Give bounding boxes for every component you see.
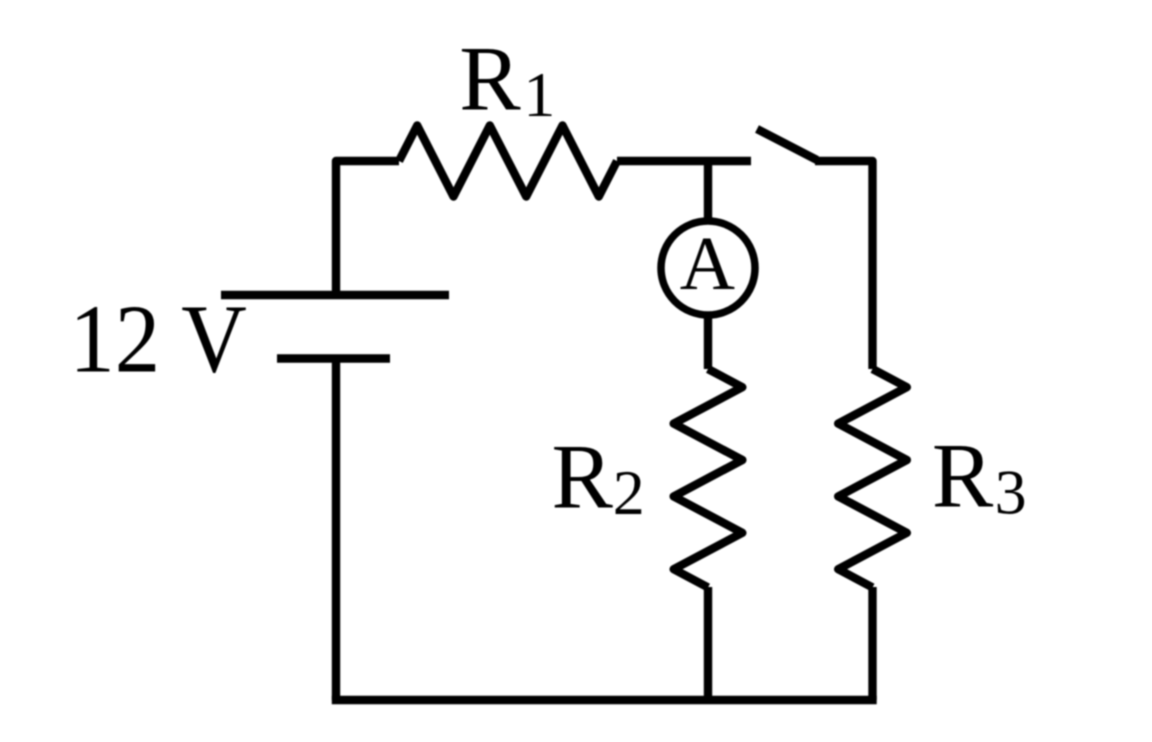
svg-text:3: 3 <box>995 456 1027 527</box>
ammeter U1 circle <box>661 221 755 315</box>
wire: battery negative lead <box>332 359 340 701</box>
svg-text:A: A <box>680 221 735 306</box>
wire: R2 to bottom wire <box>704 587 712 700</box>
resistor R3 <box>838 369 907 587</box>
svg-text:12 V: 12 V <box>69 286 246 394</box>
battery B1 short plate (negative) <box>277 354 390 362</box>
wire: R3 to bottom wire <box>868 587 876 700</box>
svg-text:R: R <box>552 426 614 528</box>
resistor R1 <box>399 126 617 197</box>
switch S1 blade (open) <box>757 129 817 160</box>
svg-text:R: R <box>459 27 521 129</box>
bottom wire (ground return) <box>336 696 873 704</box>
svg-text:2: 2 <box>613 457 645 528</box>
svg-text:1: 1 <box>523 59 555 130</box>
wire: R1 to switch left contact (passes node above ammeter) <box>617 157 751 165</box>
wire: node to ammeter top <box>704 161 712 222</box>
battery B1 long plate (positive) <box>221 291 449 299</box>
svg-text:R: R <box>932 425 994 527</box>
resistor R2 <box>674 369 743 587</box>
wire: ammeter bottom to R2 <box>704 315 712 369</box>
wire: battery positive lead to top-left corner to R1 <box>336 161 399 295</box>
wire: switch right contact to top-right corner down to R3 <box>815 161 873 369</box>
